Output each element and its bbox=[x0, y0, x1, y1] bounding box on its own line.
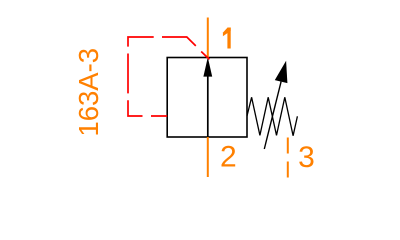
port line 1 (orange centerline above box) bbox=[207, 18, 209, 58]
spring (zigzag) at right of box bbox=[247, 97, 297, 135]
svg-text:163A-3: 163A-3 bbox=[73, 48, 104, 137]
port label 1 bbox=[223, 28, 231, 49]
flow path arrow shaft inside box bbox=[207, 74, 209, 137]
adjustment arrow shaft across spring bbox=[264, 82, 281, 149]
svg-text:3: 3 bbox=[298, 141, 315, 174]
valve body box bbox=[167, 58, 247, 138]
port line 3 (orange dashed, below spring) bbox=[287, 138, 289, 178]
svg-text:2: 2 bbox=[220, 141, 237, 174]
port line 2 (orange centerline below box) bbox=[207, 137, 209, 177]
flow path arrowhead bbox=[203, 57, 212, 76]
adjustment arrowhead bbox=[275, 61, 288, 83]
pilot line (red dashed) from left of box up and over to arrow tip bbox=[128, 37, 209, 116]
